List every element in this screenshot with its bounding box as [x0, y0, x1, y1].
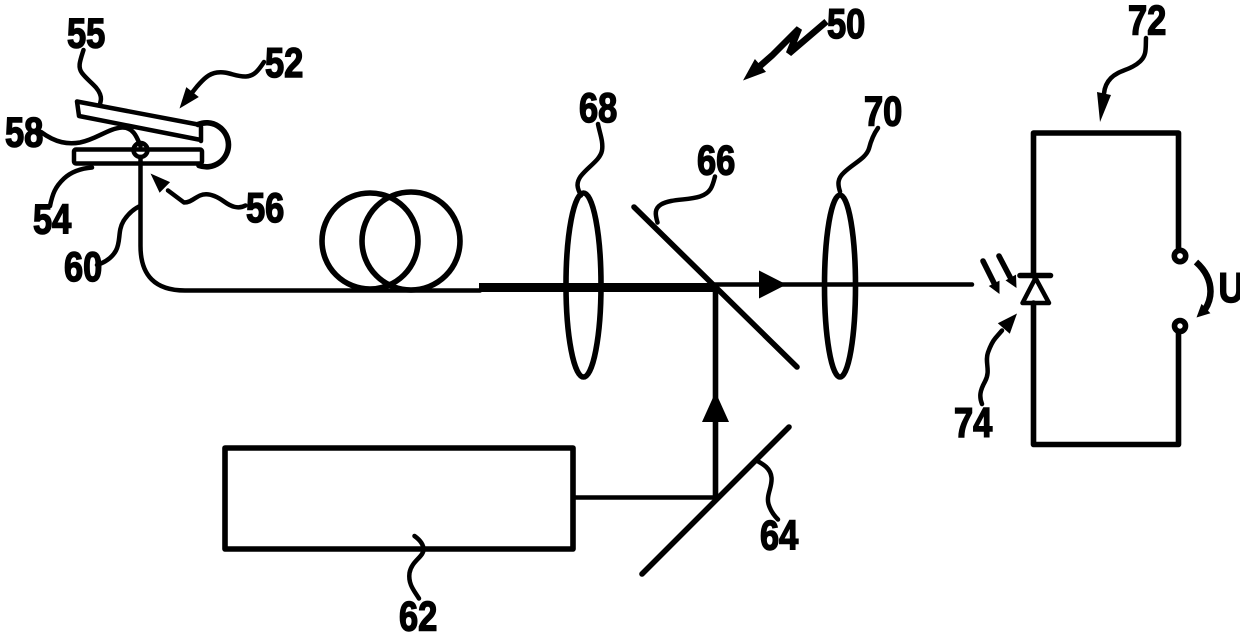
clamp 52: spring bend (right U-bend)	[198, 123, 228, 167]
incident light arrow 2	[999, 256, 1017, 288]
leader from 54 to lower bar	[50, 168, 92, 207]
terminal node top	[1174, 250, 1185, 261]
leader from 66 to beamsplitter	[656, 177, 715, 223]
photodiode 74: cathode bar	[1020, 273, 1051, 279]
arrow from 74 to photodiode	[980, 314, 1017, 405]
label 64	[760, 513, 798, 560]
label 55	[67, 11, 105, 58]
svg-text:52: 52	[265, 40, 303, 87]
fiber pivot circle 58	[134, 143, 148, 157]
leader from 64 to mirror	[756, 460, 779, 520]
connector line laser to mirror	[573, 495, 718, 500]
leader from 70 to lens	[838, 128, 878, 192]
label 60	[64, 244, 102, 291]
terminal node bottom	[1175, 321, 1186, 332]
mirror 64 diagonal	[642, 427, 789, 574]
svg-text:74: 74	[954, 400, 992, 447]
label 54	[33, 197, 71, 244]
leader from 55 to clamp upper bar	[80, 50, 101, 104]
label 52	[265, 40, 303, 87]
incident light arrow 1	[983, 261, 1000, 294]
label 72	[1128, 0, 1166, 44]
beam arrow right of beamsplitter	[759, 271, 787, 299]
clamp 52: upper jaw bar	[77, 102, 201, 142]
arrow from 72 to box	[1097, 38, 1146, 122]
detector circuit box 72	[1034, 133, 1179, 445]
thick beam segment from fiber end to beamsplitter	[479, 283, 716, 292]
fiber coil left loop	[322, 193, 418, 289]
label 58	[5, 110, 43, 157]
label 70	[864, 89, 902, 136]
svg-text:60: 60	[64, 244, 102, 291]
svg-text:58: 58	[5, 110, 43, 157]
leader from 60 to fiber	[97, 207, 139, 266]
lens 70	[825, 195, 856, 377]
lens 68	[566, 193, 601, 377]
svg-text:U: U	[1219, 265, 1240, 311]
leader from 68 to lens	[578, 124, 603, 196]
fiber coil right loop	[362, 192, 460, 290]
svg-text:56: 56	[246, 185, 284, 232]
leader from 62 to laser box	[409, 536, 423, 599]
clamp 52: lower jaw bar	[74, 150, 202, 164]
vertical pump beam from mirror to beamsplitter	[713, 291, 719, 500]
photodiode 74: triangle	[1023, 278, 1050, 303]
zigzag reference arrow for 50	[743, 22, 827, 81]
beamsplitter 66 diagonal	[634, 207, 797, 367]
leader from 58 to pivot	[41, 127, 141, 146]
label U	[1219, 265, 1240, 311]
label 62	[399, 594, 437, 632]
arrow from 56 pointing to fiber exit	[151, 174, 246, 208]
label 74	[954, 400, 992, 447]
svg-text:70: 70	[864, 89, 902, 136]
svg-text:55: 55	[67, 11, 105, 58]
label 56	[246, 185, 284, 232]
label 66	[697, 138, 735, 185]
upward beam arrow	[702, 392, 729, 422]
thin beam from beamsplitter to detector	[715, 282, 972, 287]
voltage arc arrow U	[1196, 262, 1211, 318]
laser source box 62	[225, 448, 573, 549]
label 50	[827, 1, 865, 48]
svg-text:50: 50	[827, 1, 865, 48]
label 68	[579, 85, 617, 132]
arrow from 52 pointing to clamp	[180, 62, 265, 109]
optical fiber 60: wire from clamp down and to the right	[141, 157, 481, 291]
